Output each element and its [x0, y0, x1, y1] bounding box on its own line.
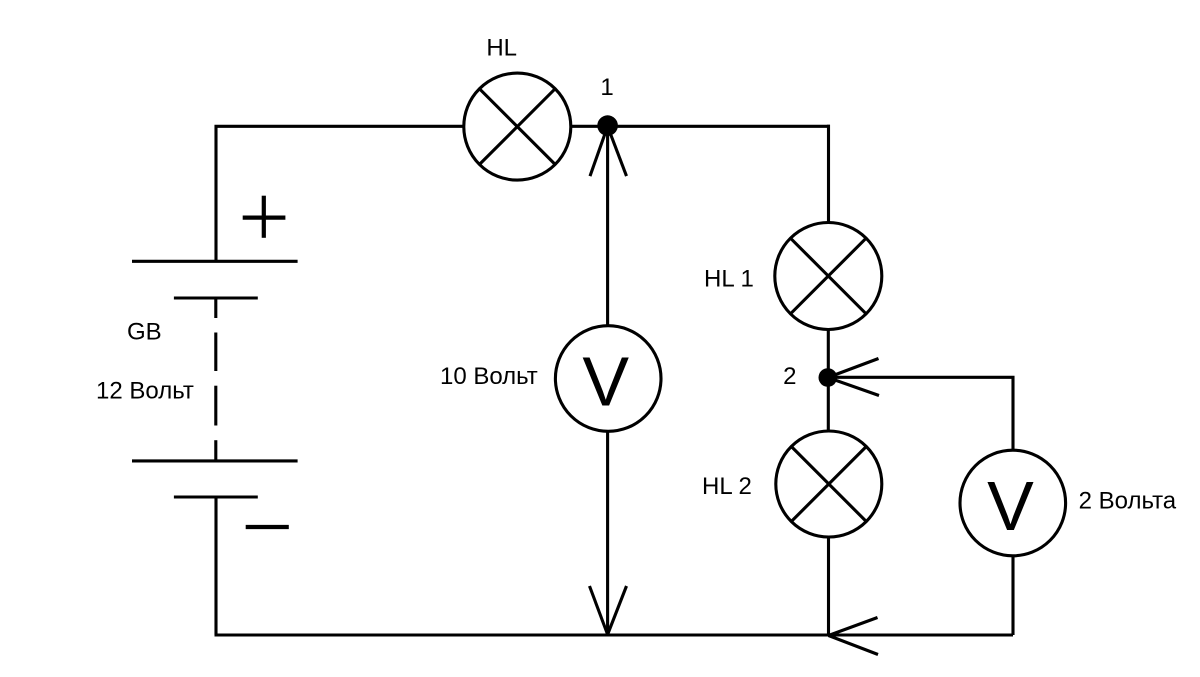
arrow of V2 lead pointing at node 2	[828, 359, 879, 396]
svg-text:2: 2	[783, 363, 796, 390]
node 2	[819, 368, 838, 387]
node 1	[597, 115, 618, 136]
wire lamp HL1 to node 2	[827, 330, 830, 378]
svg-text:HL 2: HL 2	[702, 473, 752, 500]
wire voltmeter V2 down to bottom wire	[1011, 556, 1014, 636]
battery GB short plate (cell 1)	[174, 296, 258, 299]
wire top-right corner down to lamp HL1	[827, 125, 830, 223]
svg-text:10 Вольт: 10 Вольт	[440, 363, 538, 390]
wire node 2 right and down to voltmeter V2	[828, 377, 1013, 451]
voltmeter V1 top lead	[606, 126, 609, 327]
arrow of V2 lower lead pointing at junction on bottom wire	[829, 618, 879, 655]
bottom wire	[215, 633, 1014, 636]
svg-text:HL: HL	[486, 35, 517, 62]
arrow of V1 lead pointing at bottom wire	[590, 586, 627, 635]
svg-text:HL 1: HL 1	[704, 266, 754, 293]
svg-text:V: V	[987, 467, 1034, 545]
wire lamp HL to node 1	[571, 125, 608, 128]
wire node 1 to top-right corner	[608, 125, 830, 128]
arrow of V1 lead pointing at node 1	[590, 126, 627, 176]
wire battery positive terminal up and right to lamp HL	[216, 126, 463, 261]
wire battery negative terminal down to bottom-left corner	[214, 497, 217, 635]
battery minus sign	[246, 525, 289, 529]
battery GB dashed internal connection	[214, 298, 217, 461]
svg-text:V: V	[582, 343, 629, 421]
voltmeter U2 (V)	[960, 450, 1066, 556]
battery plus sign	[243, 196, 286, 238]
svg-text:1: 1	[600, 74, 613, 101]
battery GB long plate (cell 2)	[132, 459, 298, 462]
svg-text:12 Вольт: 12 Вольт	[96, 378, 194, 405]
voltmeter U1 (V)	[555, 326, 661, 432]
lamp HL1	[775, 223, 882, 330]
wire node 2 to lamp HL2	[827, 378, 830, 432]
svg-text:2 Вольта: 2 Вольта	[1079, 488, 1177, 515]
svg-text:GB: GB	[127, 319, 162, 346]
wire lamp HL2 down to bottom wire	[827, 537, 830, 636]
voltmeter V1 bottom lead	[606, 431, 609, 635]
battery GB positive long plate	[132, 260, 298, 263]
lamp HL2	[776, 431, 882, 537]
battery GB negative short plate	[174, 495, 258, 498]
lamp HL	[464, 73, 571, 180]
